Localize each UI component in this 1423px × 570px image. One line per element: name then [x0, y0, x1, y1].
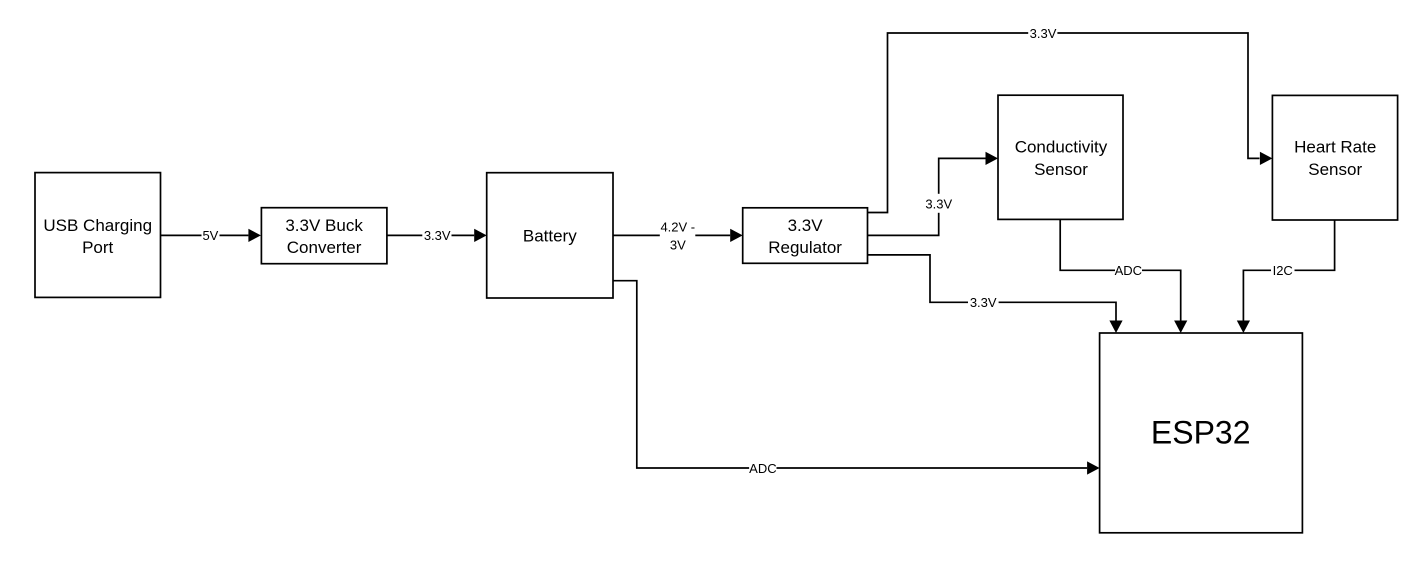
svg-text:Heart Rate: Heart Rate [1294, 138, 1376, 157]
svg-text:3.3V: 3.3V [970, 295, 997, 310]
wire 3.3V low: Regulator to ESP32 top [868, 255, 1123, 333]
wire 4.2V-3V: Battery to 3.3V Regulator [613, 219, 743, 252]
svg-text:3V: 3V [670, 237, 686, 252]
svg-text:Battery: Battery [523, 226, 577, 245]
svg-text:3.3V: 3.3V [424, 228, 451, 243]
svg-text:ESP32: ESP32 [1151, 414, 1251, 450]
svg-text:USB Charging: USB Charging [43, 216, 152, 235]
svg-text:Conductivity: Conductivity [1015, 138, 1108, 157]
wire 3.3V top: Regulator to Heart Rate Sensor [868, 26, 1273, 213]
wire 3.3V mid: Regulator to Conductivity Sensor [868, 152, 999, 236]
block USB Charging Port [35, 173, 161, 298]
svg-text:ADC: ADC [1115, 263, 1142, 278]
block Heart Rate Sensor [1272, 95, 1397, 220]
svg-text:Regulator: Regulator [768, 238, 842, 257]
svg-text:Sensor: Sensor [1034, 160, 1088, 179]
svg-text:3.3V: 3.3V [1030, 26, 1057, 41]
wire 5V: USB Charging Port to 3.3V Buck Converter [161, 228, 261, 243]
wire ADC: Battery to ESP32 left [613, 281, 1100, 476]
block Conductivity Sensor [998, 95, 1123, 219]
svg-text:5V: 5V [202, 228, 218, 243]
block Battery [487, 173, 613, 298]
block 3.3V Buck Converter [261, 208, 387, 264]
svg-text:Converter: Converter [287, 238, 362, 257]
svg-text:3.3V: 3.3V [788, 216, 824, 235]
wire I2C: Heart Rate Sensor to ESP32 top [1237, 220, 1335, 333]
wire 3.3V: Buck Converter to Battery [387, 228, 487, 243]
svg-text:Port: Port [82, 238, 113, 257]
svg-text:I2C: I2C [1273, 263, 1293, 278]
svg-text:3.3V Buck: 3.3V Buck [285, 216, 363, 235]
wire ADC: Conductivity Sensor to ESP32 top [1060, 219, 1187, 333]
block 3.3V Regulator [743, 208, 868, 263]
svg-text:3.3V: 3.3V [925, 197, 952, 212]
svg-text:4.2V -: 4.2V - [660, 219, 695, 234]
block ESP32 [1100, 333, 1303, 533]
svg-text:ADC: ADC [749, 461, 776, 476]
svg-text:Sensor: Sensor [1308, 160, 1362, 179]
